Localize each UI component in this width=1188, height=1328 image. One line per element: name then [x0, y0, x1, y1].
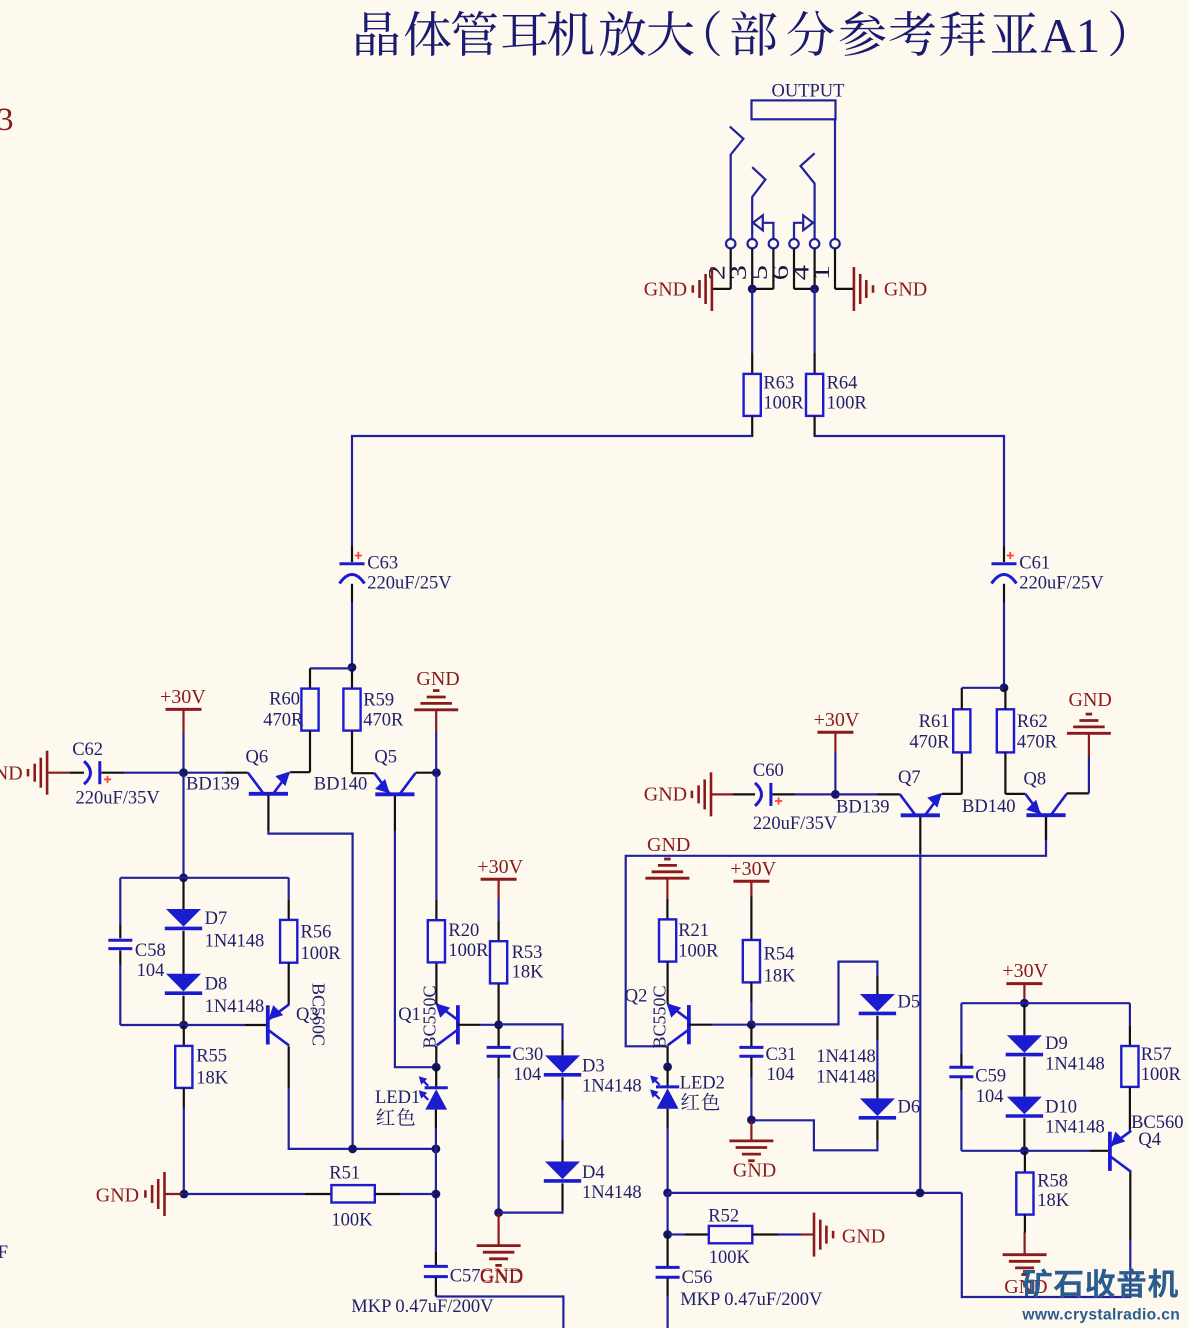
svg-text:GND: GND — [1069, 689, 1112, 711]
svg-text:R20: R20 — [448, 921, 479, 941]
svg-text:100R: 100R — [678, 942, 719, 962]
svg-text:GND: GND — [480, 1265, 523, 1287]
svg-text:GND: GND — [644, 279, 687, 301]
svg-text:C61: C61 — [1019, 553, 1050, 573]
svg-text:BD139: BD139 — [836, 797, 889, 817]
svg-text:C62: C62 — [72, 740, 103, 760]
svg-text:R60: R60 — [269, 690, 300, 710]
svg-text:BD139: BD139 — [186, 775, 239, 795]
svg-text:BD140: BD140 — [314, 775, 367, 795]
svg-text:100R: 100R — [827, 394, 868, 414]
svg-text:470R: 470R — [909, 733, 950, 753]
svg-text:100K: 100K — [331, 1211, 373, 1231]
svg-text:GND: GND — [416, 668, 459, 690]
svg-text:GND: GND — [0, 762, 23, 784]
svg-text:+30V: +30V — [814, 709, 860, 731]
svg-text:220uF/25V: 220uF/25V — [1019, 573, 1104, 593]
svg-text:BD140: BD140 — [962, 797, 1015, 817]
svg-text:1N4148: 1N4148 — [816, 1067, 876, 1087]
svg-text:Q4: Q4 — [1138, 1130, 1161, 1150]
svg-text:OUTPUT: OUTPUT — [772, 82, 845, 102]
svg-text:18K: 18K — [512, 962, 544, 982]
svg-text:R52: R52 — [708, 1206, 739, 1226]
svg-text:BC550C: BC550C — [650, 985, 670, 1048]
svg-text:C63: C63 — [367, 553, 398, 573]
svg-text:R54: R54 — [764, 944, 795, 964]
svg-text:R61: R61 — [919, 712, 950, 732]
svg-text:R57: R57 — [1141, 1045, 1172, 1065]
svg-text:R53: R53 — [512, 943, 543, 963]
svg-text:www.crystalradio.cn: www.crystalradio.cn — [1021, 1306, 1180, 1323]
svg-text:R59: R59 — [363, 691, 394, 711]
svg-text:+30V: +30V — [730, 858, 776, 880]
svg-text:R51: R51 — [329, 1163, 360, 1183]
svg-text:R55: R55 — [196, 1047, 227, 1067]
svg-text:18K: 18K — [764, 966, 797, 986]
svg-text:3: 3 — [0, 102, 14, 138]
svg-text:R58: R58 — [1037, 1171, 1068, 1191]
svg-text:220uF/35V: 220uF/35V — [753, 814, 838, 834]
svg-text:18K: 18K — [196, 1068, 229, 1088]
svg-text:C57: C57 — [450, 1267, 481, 1287]
svg-text:Q1: Q1 — [398, 1005, 421, 1025]
svg-text:C58: C58 — [135, 941, 166, 961]
svg-text:Q7: Q7 — [898, 768, 921, 788]
svg-text:Q5: Q5 — [374, 748, 397, 768]
svg-text:Q8: Q8 — [1024, 770, 1047, 790]
svg-text:+30V: +30V — [160, 686, 206, 708]
svg-text:470R: 470R — [1017, 733, 1058, 753]
svg-text:104: 104 — [137, 961, 165, 981]
svg-text:220uF/25V: 220uF/25V — [367, 573, 452, 593]
svg-text:104: 104 — [767, 1065, 795, 1085]
svg-text:F: F — [0, 1242, 8, 1263]
svg-text:D7: D7 — [205, 909, 228, 929]
svg-text:104: 104 — [514, 1065, 542, 1085]
svg-text:100R: 100R — [1141, 1065, 1182, 1085]
svg-text:1: 1 — [808, 265, 834, 280]
svg-text:D4: D4 — [582, 1163, 605, 1183]
svg-text:D10: D10 — [1045, 1097, 1077, 1117]
svg-text:D9: D9 — [1045, 1034, 1068, 1054]
svg-text:D3: D3 — [582, 1056, 605, 1076]
svg-text:C60: C60 — [753, 761, 784, 781]
svg-text:100K: 100K — [709, 1248, 751, 1268]
svg-text:1N4148: 1N4148 — [816, 1047, 876, 1067]
svg-text:D6: D6 — [898, 1098, 921, 1118]
svg-text:100R: 100R — [763, 394, 804, 414]
svg-text:BC560C: BC560C — [309, 983, 329, 1046]
svg-text:Q6: Q6 — [246, 748, 269, 768]
svg-text:A1: A1 — [1040, 8, 1100, 63]
svg-text:1N4148: 1N4148 — [582, 1183, 642, 1203]
svg-text:GND: GND — [647, 834, 690, 856]
svg-text:470R: 470R — [263, 710, 304, 730]
svg-text:1N4148: 1N4148 — [582, 1077, 642, 1097]
svg-text:1N4148: 1N4148 — [205, 997, 265, 1017]
svg-text:LED1: LED1 — [375, 1088, 420, 1108]
svg-text:GND: GND — [733, 1159, 776, 1181]
svg-text:470R: 470R — [363, 711, 404, 731]
svg-text:LED2: LED2 — [680, 1074, 725, 1094]
svg-text:18K: 18K — [1037, 1191, 1070, 1211]
svg-text:C59: C59 — [975, 1066, 1006, 1086]
svg-text:MKP 0.47uF/200V: MKP 0.47uF/200V — [680, 1290, 823, 1310]
svg-text:R62: R62 — [1017, 712, 1048, 732]
svg-text:100R: 100R — [448, 941, 489, 961]
svg-text:C56: C56 — [682, 1268, 713, 1288]
svg-text:1N4148: 1N4148 — [1045, 1055, 1105, 1075]
svg-text:220uF/35V: 220uF/35V — [76, 788, 161, 808]
svg-text:Q2: Q2 — [625, 986, 648, 1006]
svg-text:GND: GND — [884, 279, 927, 301]
svg-text:1N4148: 1N4148 — [205, 931, 265, 951]
svg-text:R21: R21 — [678, 921, 709, 941]
svg-text:C31: C31 — [766, 1045, 797, 1065]
svg-text:R56: R56 — [301, 923, 332, 943]
svg-text:GND: GND — [644, 783, 687, 805]
svg-text:D8: D8 — [205, 975, 228, 995]
svg-text:100R: 100R — [301, 944, 342, 964]
svg-text:GND: GND — [842, 1225, 885, 1247]
svg-text:104: 104 — [976, 1087, 1004, 1107]
svg-text:MKP 0.47uF/200V: MKP 0.47uF/200V — [351, 1297, 494, 1317]
svg-text:R64: R64 — [827, 374, 858, 394]
svg-text:+30V: +30V — [1002, 960, 1048, 982]
svg-text:C30: C30 — [512, 1045, 543, 1065]
svg-text:R63: R63 — [763, 374, 794, 394]
svg-text:D5: D5 — [898, 993, 921, 1013]
svg-text:GND: GND — [96, 1184, 139, 1206]
svg-text:1N4148: 1N4148 — [1045, 1118, 1105, 1138]
svg-text:+30V: +30V — [477, 856, 523, 878]
